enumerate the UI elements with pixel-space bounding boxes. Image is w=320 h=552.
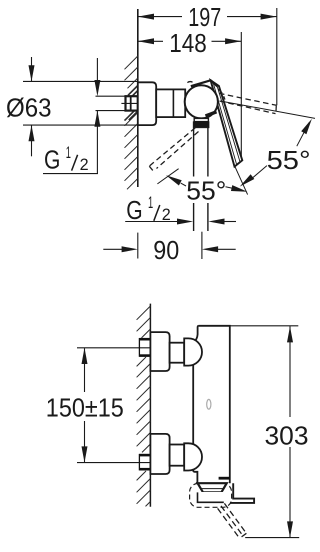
lower S-union tube	[170, 445, 185, 466]
svg-text:90: 90	[153, 235, 179, 265]
dashed lever (up position)	[218, 89, 276, 113]
black tick above outlet	[219, 477, 230, 480]
escutcheon (top view)	[138, 82, 156, 125]
outlet cone (hose nipple)	[198, 483, 227, 492]
inlet nipple behind wall (top view)	[126, 96, 138, 110]
dimension 148 line	[138, 40, 242, 42]
dashed hose coupling outline	[190, 483, 232, 507]
cartridge ball	[185, 85, 218, 118]
svg-text:1: 1	[66, 144, 71, 162]
G1/2 label underline	[43, 173, 98, 175]
thin reference line beyond solid lever tip	[235, 167, 248, 195]
lever inner lines	[213, 82, 237, 165]
dimension 150+-15 stem and arrows	[84, 348, 86, 392]
extension line for 197	[276, 8, 278, 105]
dimension 197 arrows	[138, 14, 154, 20]
coupling nut solid part	[198, 492, 224, 502]
55 right arc arrows	[297, 122, 310, 146]
outlet centre extension line	[201, 232, 203, 259]
lever cap top line	[191, 80, 218, 86]
lower S-union nut	[184, 443, 202, 470]
upper inlet nipple behind wall	[139, 338, 150, 357]
extension line for 148	[240, 32, 242, 160]
hose holder L-bracket	[230, 483, 254, 503]
lower inlet nipple behind wall	[139, 454, 150, 471]
55 left arc arrows	[181, 183, 186, 186]
G1/2 label (outlet)	[126, 194, 171, 225]
lever base black wedge	[206, 112, 217, 116]
mixer body (front view)	[193, 326, 230, 483]
upper S-union escutcheon	[150, 332, 169, 371]
dimension 90	[103, 248, 123, 250]
svg-text:G: G	[44, 145, 60, 175]
150 dim bottom extension / lower inlet centreline	[77, 462, 150, 464]
dashed lever (down-left position)	[149, 82, 198, 171]
dimension 148 arrows	[138, 38, 154, 44]
lower S-union escutcheon	[150, 434, 169, 474]
55 degree label (left) white backing	[184, 177, 225, 204]
svg-text:55°: 55°	[267, 145, 311, 175]
dimension Ø63 extension lines	[23, 80, 138, 82]
svg-text:55°: 55°	[186, 175, 226, 205]
wall line (top view)	[137, 9, 139, 187]
dimension Ø63 stems and arrows	[31, 57, 33, 81]
G1/2 label (upper left)	[44, 144, 89, 175]
dimension 303	[245, 537, 299, 539]
collar dark band	[193, 122, 209, 128]
dashed shower hose	[218, 503, 247, 538]
G1/2 thread dim arrows	[96, 58, 98, 82]
leader riser from G1/2 label to thread	[96, 111, 98, 174]
tube joint line	[172, 89, 174, 117]
303 top extension line (prolongs body top edge)	[230, 325, 298, 327]
collar white ring below ball	[194, 118, 208, 121]
upper S-union tube	[170, 343, 185, 363]
shower outlet pipe lines (downwards)	[193, 128, 195, 231]
wall hatching (bottom view)	[137, 306, 151, 506]
opposing arrow at outlet right	[208, 219, 224, 225]
svg-text:Ø63: Ø63	[6, 93, 52, 123]
svg-text:150±15: 150±15	[46, 393, 124, 423]
thin reference line for raised lever angle	[222, 101, 316, 118]
GROHE logo mark on body	[207, 399, 211, 409]
body tube (top view)	[156, 89, 185, 117]
G1/2 thread extension lines (behind wall)	[96, 95, 126, 97]
wall line (bottom view)	[149, 304, 151, 507]
svg-text:148: 148	[169, 28, 207, 58]
dimension 197 line	[138, 16, 277, 18]
lever handle (solid, closed position)	[211, 80, 243, 166]
150 dim top extension / upper inlet centreline	[77, 347, 150, 349]
thin reference line beyond dashed-left lever	[157, 169, 178, 184]
upper S-union nut	[184, 338, 202, 365]
G1/2 outlet underline leader with arrow	[125, 221, 179, 223]
svg-text:303: 303	[265, 421, 309, 451]
svg-text:2: 2	[80, 156, 89, 174]
wall hatching (top view)	[125, 56, 138, 189]
